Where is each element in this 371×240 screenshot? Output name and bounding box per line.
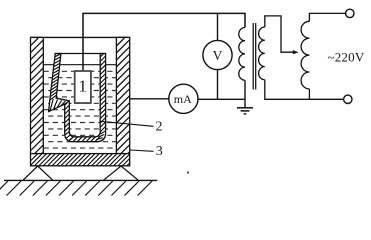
leader line to label 2 — [101, 121, 154, 126]
inner crucible 2: wall hatching — [65, 54, 106, 142]
outer crucible left wall — [31, 37, 44, 153]
svg-text:2: 2 — [156, 119, 163, 134]
tilted neck hatching — [50, 54, 69, 111]
variac bottom lead — [308, 89, 310, 99]
liquid level line in outer vessel — [43, 64, 116, 66]
voltmeter top lead — [217, 13, 219, 40]
small dot mark — [187, 171, 189, 173]
outer crucible right wall — [116, 37, 129, 153]
wire from crucible to milliammeter — [130, 98, 169, 100]
transformer right winding — [259, 27, 265, 80]
outer crucible lid line — [31, 36, 130, 38]
milliammeter mA — [169, 84, 198, 113]
support triangle right — [104, 166, 139, 180]
svg-text:V: V — [213, 48, 223, 63]
floor line — [4, 179, 157, 181]
variac winding — [301, 21, 309, 89]
transformer right winding top lead to tap arrow — [265, 16, 295, 52]
variac top lead to terminal — [309, 13, 345, 21]
transformer left winding bottom lead to ground — [244, 80, 246, 108]
wire mA to voltmeter junction and transformer ground lead — [198, 98, 245, 100]
terminal bottom — [344, 95, 352, 103]
voltmeter bottom lead — [217, 70, 219, 100]
inner crucible rim line — [61, 53, 106, 55]
wire from electrode 1 up and across to transformer left winding lead — [83, 13, 245, 70]
transformer core — [252, 23, 254, 90]
svg-text:mA: mA — [174, 92, 192, 106]
outer crucible bottom slab — [31, 154, 130, 166]
liquid dashes — [44, 71, 116, 148]
floor hatching — [0, 181, 152, 196]
svg-text:1: 1 — [78, 77, 87, 96]
svg-text:3: 3 — [156, 144, 163, 159]
terminal top — [346, 9, 354, 17]
transformer right winding bottom lead and rail to terminal — [265, 80, 344, 100]
ground symbol — [237, 108, 253, 114]
transformer left winding — [239, 28, 245, 81]
leader line to label 3 — [130, 150, 154, 151]
tap arrowhead — [293, 50, 299, 54]
electrode box 1 — [75, 71, 91, 103]
voltmeter V — [203, 40, 232, 69]
svg-text:~220V: ~220V — [328, 49, 365, 64]
support triangle left — [23, 166, 53, 180]
inner crucible 2: cup with tilted neck (ladle) outline — [49, 54, 106, 142]
